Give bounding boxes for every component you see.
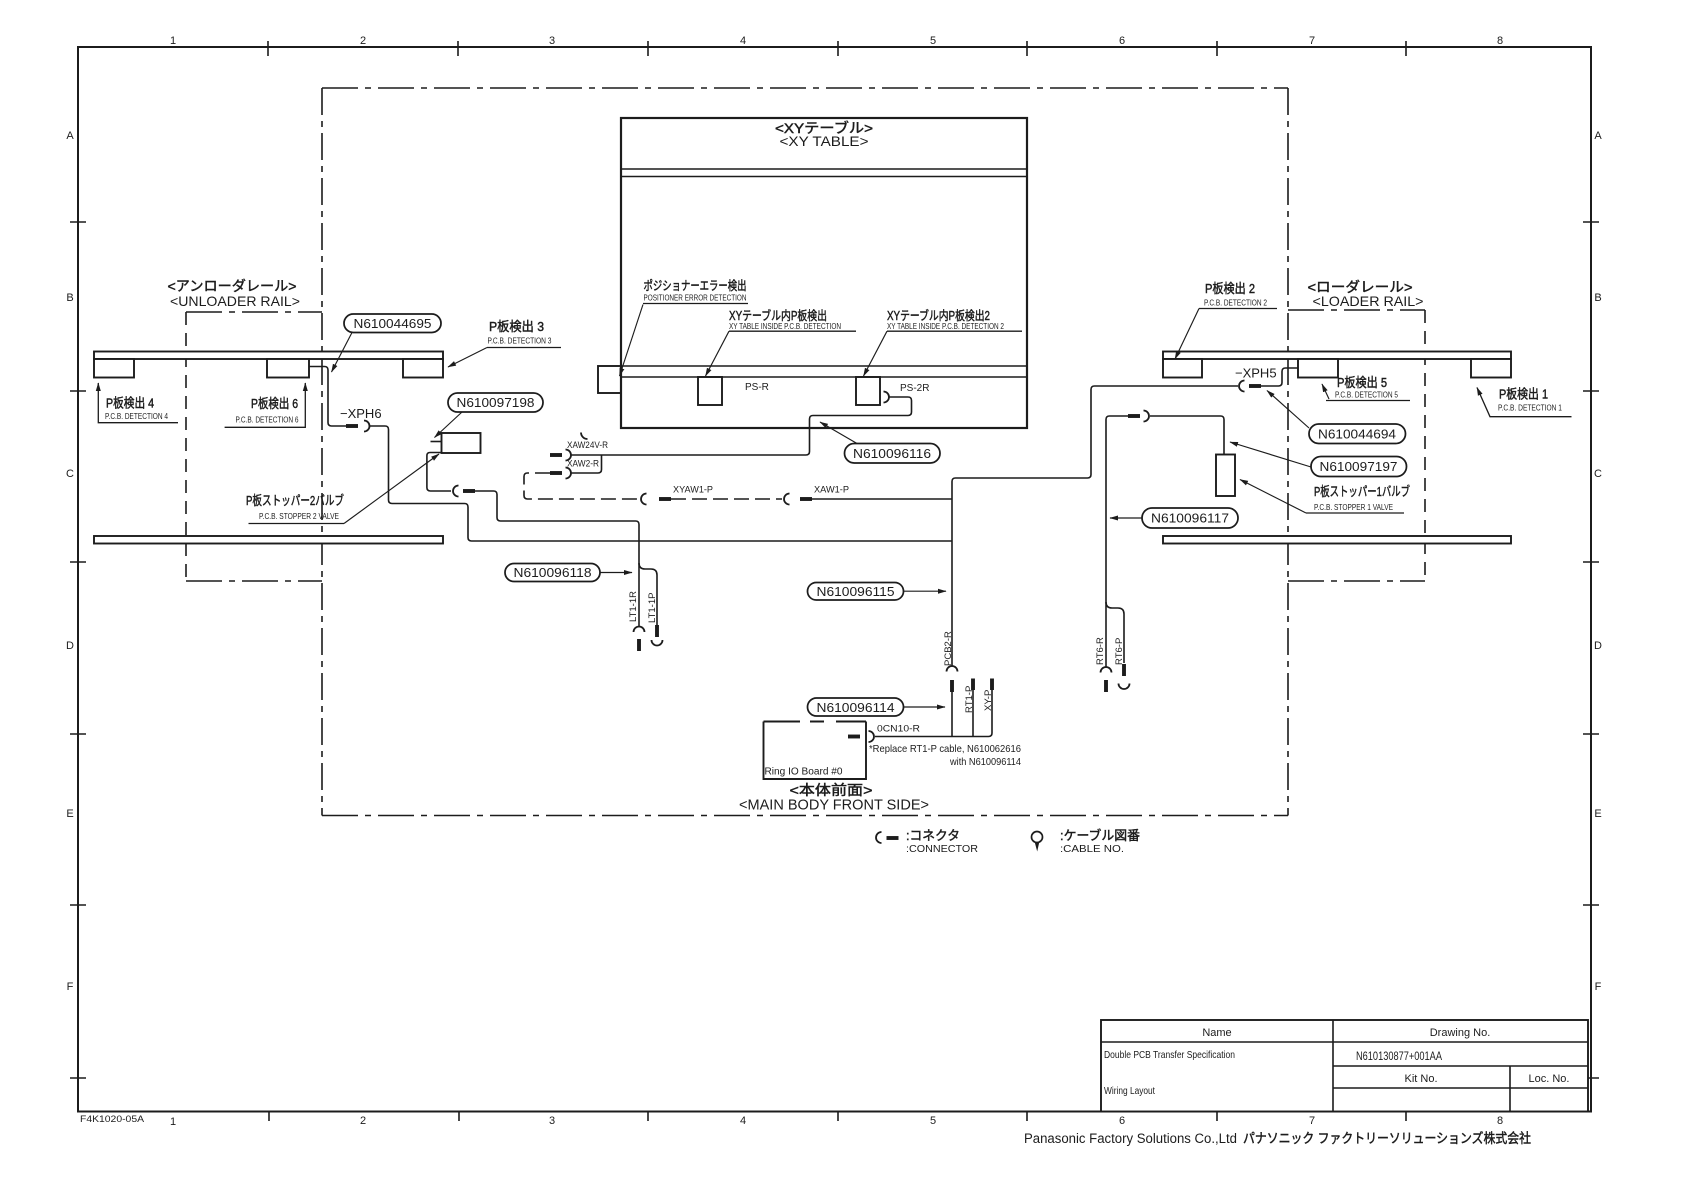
svg-text:パナソニック ファクトリーソリューションズ株式会社: パナソニック ファクトリーソリューションズ株式会社 xyxy=(1243,1131,1531,1146)
pcb stopper 1 valve label xyxy=(1240,480,1410,514)
svg-text:1: 1 xyxy=(170,1116,176,1128)
pcb detection 4 label xyxy=(98,383,178,423)
LT1-1R connector dash xyxy=(637,639,641,651)
svg-text:3: 3 xyxy=(549,35,555,47)
svg-text:5: 5 xyxy=(930,35,936,47)
cable label N610096117 xyxy=(1110,508,1238,528)
XY table box xyxy=(621,118,1027,428)
svg-text:XY TABLE INSIDE P.C.B. DETECTI: XY TABLE INSIDE P.C.B. DETECTION 2 xyxy=(887,321,1004,331)
unloader rail lower bar xyxy=(94,536,443,544)
RT6-R drop line xyxy=(1105,602,1107,667)
RT6-R connector arc xyxy=(1101,667,1112,673)
wire RT6 connector to stopper1 valve xyxy=(1150,416,1224,455)
svg-text::CABLE NO.: :CABLE NO. xyxy=(1060,843,1124,855)
XAW1-P connector arc xyxy=(784,494,790,505)
svg-text:N610096116: N610096116 xyxy=(853,446,931,461)
wire XAW2-R joining XAW24V-R run xyxy=(571,455,602,473)
unloader rail foot 2 xyxy=(267,359,309,378)
svg-text:4: 4 xyxy=(740,1115,746,1127)
XY-P connector dash xyxy=(990,679,994,691)
column numbers bottom xyxy=(170,1115,1503,1128)
svg-text:D: D xyxy=(1594,640,1602,652)
connector -XPH6 arc xyxy=(364,421,370,432)
dashed wire from XAW2-R dash to XYAW1-P xyxy=(524,473,640,499)
svg-text:C: C xyxy=(66,468,74,480)
row letters left xyxy=(66,130,74,993)
svg-text:6: 6 xyxy=(1119,1115,1125,1127)
LT1 pair branch curve xyxy=(639,563,657,632)
wire XPH6 run to lower right (N610096115 cable run) xyxy=(370,426,953,541)
svg-text:N610096118: N610096118 xyxy=(514,565,592,580)
XY table lower rail lines xyxy=(621,366,1027,377)
svg-text:P.C.B. STOPPER 2 VALVE: P.C.B. STOPPER 2 VALVE xyxy=(259,511,339,521)
svg-text:4: 4 xyxy=(740,35,746,47)
XAW2-R connector dash xyxy=(550,471,562,475)
svg-text:E: E xyxy=(1594,808,1601,820)
svg-text:P.C.B. DETECTION 6: P.C.B. DETECTION 6 xyxy=(236,415,299,425)
frame row ticks right xyxy=(1583,222,1599,1078)
RT6-R connector dash xyxy=(1104,680,1108,692)
svg-text:with N610096114: with N610096114 xyxy=(949,756,1021,768)
svg-text:P.C.B. DETECTION 2: P.C.B. DETECTION 2 xyxy=(1204,298,1267,308)
XY table upper double line xyxy=(621,169,1027,177)
sensor PS-R box xyxy=(698,377,722,405)
0CN10-R connector dash xyxy=(848,735,860,739)
wire from loader foot2 to connector -XPH5 xyxy=(1261,368,1298,386)
XYAW1-P connector dash xyxy=(659,497,671,501)
stub at valve box left xyxy=(431,441,442,443)
connector -XPH5 dash xyxy=(1249,384,1261,388)
xy table inside pcb detection label xyxy=(706,308,857,376)
cable label N610096114 xyxy=(808,698,946,716)
loader rail region boundary bottom xyxy=(1288,580,1425,582)
svg-text:D: D xyxy=(66,640,74,652)
loader rail foot 1 xyxy=(1163,359,1202,378)
column numbers top xyxy=(170,35,1503,47)
svg-text:RT6-R: RT6-R xyxy=(1095,637,1106,665)
LT1-1P connector dash xyxy=(655,625,659,637)
svg-text:N610130877+001AA: N610130877+001AA xyxy=(1356,1051,1442,1063)
wire from unloader foot2 to connector -XPH6 xyxy=(309,367,346,427)
loader rail region boundary right xyxy=(1424,310,1426,581)
pcb stopper 2 valve label xyxy=(246,454,439,524)
stopper2 valve connector arc xyxy=(453,486,458,497)
svg-text:E: E xyxy=(66,808,73,820)
main body dash-dot boundary bottom xyxy=(322,815,1288,817)
wire 0CN10-R run xyxy=(875,690,992,737)
dashed wire XYAW1-P to XAW1-P xyxy=(671,498,782,500)
svg-text:Double PCB Transfer Specificat: Double PCB Transfer Specification xyxy=(1104,1049,1235,1061)
XAW24V-R hook arc xyxy=(581,433,588,440)
loader rail region boundary top xyxy=(1288,309,1425,311)
LT1-1R connector arc xyxy=(634,627,645,633)
svg-text:N610096114: N610096114 xyxy=(817,700,895,715)
pcb detection 3 label xyxy=(448,319,561,367)
row letters right xyxy=(1594,130,1602,993)
svg-text:N610096117: N610096117 xyxy=(1151,511,1229,526)
frame column ticks top xyxy=(268,41,1406,56)
PCB2-R connector arc xyxy=(947,666,958,672)
wire XPH5 to main vertical xyxy=(952,386,1238,499)
svg-text::コネクタ: :コネクタ xyxy=(906,828,960,843)
XAW1-P connector dash xyxy=(800,497,812,501)
svg-text::CONNECTOR: :CONNECTOR xyxy=(906,843,978,855)
loader rail foot 3 xyxy=(1471,359,1511,378)
svg-text:N610097197: N610097197 xyxy=(1320,459,1398,474)
XAW2-R connector arc xyxy=(566,468,572,479)
svg-text:3: 3 xyxy=(549,1115,555,1127)
svg-text:LT1-1P: LT1-1P xyxy=(647,593,658,623)
pcb detection 1 label xyxy=(1477,387,1572,417)
svg-text:PS-R: PS-R xyxy=(745,382,769,393)
svg-text:RT1-P: RT1-P xyxy=(964,686,975,713)
main body dash-dot boundary top xyxy=(322,87,1288,89)
Ring IO Board box xyxy=(764,722,867,780)
RT6 connector dash xyxy=(1128,414,1140,418)
svg-text:Panasonic Factory Solutions Co: Panasonic Factory Solutions Co.,Ltd xyxy=(1024,1131,1237,1146)
cable label N610096116 xyxy=(820,422,940,463)
svg-text:B: B xyxy=(66,292,73,304)
RT6-P connector arc xyxy=(1119,684,1130,690)
svg-text:RT6-P: RT6-P xyxy=(1114,638,1125,665)
svg-text:N610044694: N610044694 xyxy=(1318,427,1396,442)
svg-text:*Replace RT1-P cable, N6100626: *Replace RT1-P cable, N610062616 xyxy=(869,743,1021,755)
svg-text:P板検出 5: P板検出 5 xyxy=(1337,375,1387,390)
svg-text:1: 1 xyxy=(170,35,176,47)
pcb stopper 2 valve box xyxy=(442,433,481,453)
xy table inside pcb detection 2 label xyxy=(864,308,1023,376)
svg-text:Ring IO Board #0: Ring IO Board #0 xyxy=(765,767,843,778)
positioner error detection label xyxy=(620,279,749,376)
svg-text:B: B xyxy=(1594,292,1601,304)
XAW24V-R connector dash xyxy=(550,453,562,457)
svg-text:N610096115: N610096115 xyxy=(817,584,895,599)
legend connector arc xyxy=(876,832,881,843)
sensor PS-2R box xyxy=(856,377,880,405)
frame row ticks left xyxy=(70,222,86,1078)
wire from stopper2 connector to LT1 drops xyxy=(475,491,639,563)
unloader rail top bar xyxy=(94,352,443,360)
loader rail top bar xyxy=(1163,352,1511,360)
svg-text:P板検出 1: P板検出 1 xyxy=(1499,387,1548,402)
svg-text:A: A xyxy=(66,130,74,142)
cable label N610044694 xyxy=(1267,391,1406,444)
svg-text:F: F xyxy=(1595,981,1602,993)
PCB2-R connector dash xyxy=(950,680,954,692)
LT1-1R drop line xyxy=(638,563,640,626)
svg-text:2: 2 xyxy=(360,35,366,47)
svg-text:Name: Name xyxy=(1202,1027,1231,1039)
cable label N610096115 xyxy=(808,583,947,601)
svg-text:P板検出 4: P板検出 4 xyxy=(106,396,154,411)
PCB2-R lower wire to 0CN10-R run xyxy=(951,692,953,737)
svg-text:P.C.B. STOPPER 1 VALVE: P.C.B. STOPPER 1 VALVE xyxy=(1314,502,1393,512)
svg-text:Kit No.: Kit No. xyxy=(1404,1073,1437,1085)
svg-text:<XY TABLE>: <XY TABLE> xyxy=(780,134,869,149)
0CN10-R connector arc xyxy=(869,731,875,742)
svg-text:8: 8 xyxy=(1497,1115,1503,1127)
svg-text:<アンローダレール>: <アンローダレール> xyxy=(168,278,297,294)
RT1-P drop line xyxy=(972,689,974,737)
svg-text:P.C.B. DETECTION 5: P.C.B. DETECTION 5 xyxy=(1335,390,1398,400)
unloader rail region boundary left xyxy=(185,312,187,581)
unloader rail region boundary bottom xyxy=(186,580,322,582)
connector -XPH5 arc xyxy=(1239,381,1245,392)
svg-text:Loc. No.: Loc. No. xyxy=(1529,1073,1570,1085)
svg-text:F: F xyxy=(67,981,74,993)
wire XAW1-P to main vertical xyxy=(812,498,952,500)
pcb detection 5 label xyxy=(1322,375,1410,401)
svg-text:<本体前面>: <本体前面> xyxy=(790,782,873,798)
svg-text:F4K1020-05A: F4K1020-05A xyxy=(80,1114,145,1125)
svg-text:XY TABLE INSIDE P.C.B. DETECTI: XY TABLE INSIDE P.C.B. DETECTION xyxy=(729,321,841,331)
svg-text:C: C xyxy=(1594,468,1602,480)
loader rail lower bar xyxy=(1163,536,1511,544)
legend connector dash xyxy=(887,836,899,840)
title block xyxy=(1101,1020,1588,1112)
frame column ticks bottom xyxy=(269,1111,1406,1121)
svg-text:XY-P: XY-P xyxy=(983,690,994,711)
svg-text:<LOADER RAIL>: <LOADER RAIL> xyxy=(1313,293,1424,309)
svg-text:7: 7 xyxy=(1309,35,1315,47)
svg-text:0CN10-R: 0CN10-R xyxy=(877,724,920,735)
svg-text:POSITIONER ERROR DETECTION: POSITIONER ERROR DETECTION xyxy=(644,293,747,303)
LT1-1P connector arc xyxy=(652,640,663,646)
svg-text:N610097198: N610097198 xyxy=(457,395,535,410)
svg-text:P板検出 3: P板検出 3 xyxy=(489,319,544,334)
svg-text:N610044695: N610044695 xyxy=(354,316,432,331)
svg-text:P板ストッパー2バルブ: P板ストッパー2バルブ xyxy=(246,493,344,508)
svg-text:P板検出 6: P板検出 6 xyxy=(251,396,298,411)
RT6 pair branch curve xyxy=(1106,602,1124,663)
svg-text:XAW2-R: XAW2-R xyxy=(567,459,599,469)
RT6 connector arc xyxy=(1144,411,1150,422)
svg-text:−XPH6: −XPH6 xyxy=(340,406,382,421)
main vertical wire PCB2-R xyxy=(951,499,953,666)
svg-text:XAW24V-R: XAW24V-R xyxy=(567,440,608,450)
svg-text:P.C.B. DETECTION 3: P.C.B. DETECTION 3 xyxy=(488,336,552,346)
cable label N610096118 xyxy=(505,564,632,582)
cable label N610097198 xyxy=(435,393,544,438)
cable label N610097197 xyxy=(1230,442,1407,477)
svg-text:Wiring Layout: Wiring Layout xyxy=(1104,1086,1155,1097)
unloader rail foot 3 xyxy=(403,359,443,378)
svg-text:P板検出 2: P板検出 2 xyxy=(1205,281,1255,296)
cable label N610044695 xyxy=(332,314,442,372)
svg-text:XAW1-P: XAW1-P xyxy=(814,485,849,495)
svg-text:P.C.B. DETECTION 1: P.C.B. DETECTION 1 xyxy=(1498,403,1562,413)
stopper2 valve connector dash xyxy=(463,489,475,493)
svg-text:LT1-1R: LT1-1R xyxy=(628,591,639,622)
RT1-P connector dash xyxy=(971,679,975,691)
RT6-P connector dash xyxy=(1122,664,1126,676)
main body dash-dot boundary left xyxy=(321,88,323,816)
svg-text:5: 5 xyxy=(930,1115,936,1127)
svg-text:Drawing No.: Drawing No. xyxy=(1430,1027,1491,1039)
loader rail foot 2 xyxy=(1298,359,1338,378)
svg-text:6: 6 xyxy=(1119,35,1125,47)
legend cable number balloon xyxy=(1032,832,1043,852)
pcb detection 6 label xyxy=(225,383,306,427)
svg-text:P板ストッパー1バルブ: P板ストッパー1バルブ xyxy=(1314,484,1410,499)
unloader rail region boundary top xyxy=(186,311,322,313)
PS-2R connector arc xyxy=(884,392,890,403)
positioner sensor box left of table xyxy=(598,366,621,393)
svg-text:PS-2R: PS-2R xyxy=(900,383,929,394)
wire XAW24V-R to PS-2R xyxy=(571,397,912,455)
svg-text:<UNLOADER RAIL>: <UNLOADER RAIL> xyxy=(170,293,300,309)
svg-text:8: 8 xyxy=(1497,35,1503,47)
pcb detection 2 label xyxy=(1175,281,1277,359)
svg-text:<MAIN BODY FRONT SIDE>: <MAIN BODY FRONT SIDE> xyxy=(739,798,929,814)
svg-text:P.C.B. DETECTION 4: P.C.B. DETECTION 4 xyxy=(105,411,168,421)
svg-text:7: 7 xyxy=(1309,1115,1315,1127)
XAW24V-R connector arc xyxy=(566,450,572,461)
svg-text:ポジショナーエラー検出: ポジショナーエラー検出 xyxy=(644,279,747,293)
svg-text:PCB2-R: PCB2-R xyxy=(943,631,954,666)
svg-text:A: A xyxy=(1594,130,1602,142)
svg-text:XYAW1-P: XYAW1-P xyxy=(673,485,713,495)
svg-text::ケーブル図番: :ケーブル図番 xyxy=(1060,828,1140,843)
svg-text:−XPH5: −XPH5 xyxy=(1235,366,1277,381)
main body dash-dot boundary right xyxy=(1287,88,1289,816)
svg-text:2: 2 xyxy=(360,1115,366,1127)
pcb stopper 1 valve box xyxy=(1216,455,1235,497)
connector -XPH6 dash xyxy=(346,424,358,428)
XYAW1-P connector arc xyxy=(641,494,647,505)
wire RT6 vertical xyxy=(1106,416,1128,602)
wire from stopper2 valve to connector xyxy=(427,453,451,492)
unloader rail foot 1 xyxy=(94,359,134,378)
